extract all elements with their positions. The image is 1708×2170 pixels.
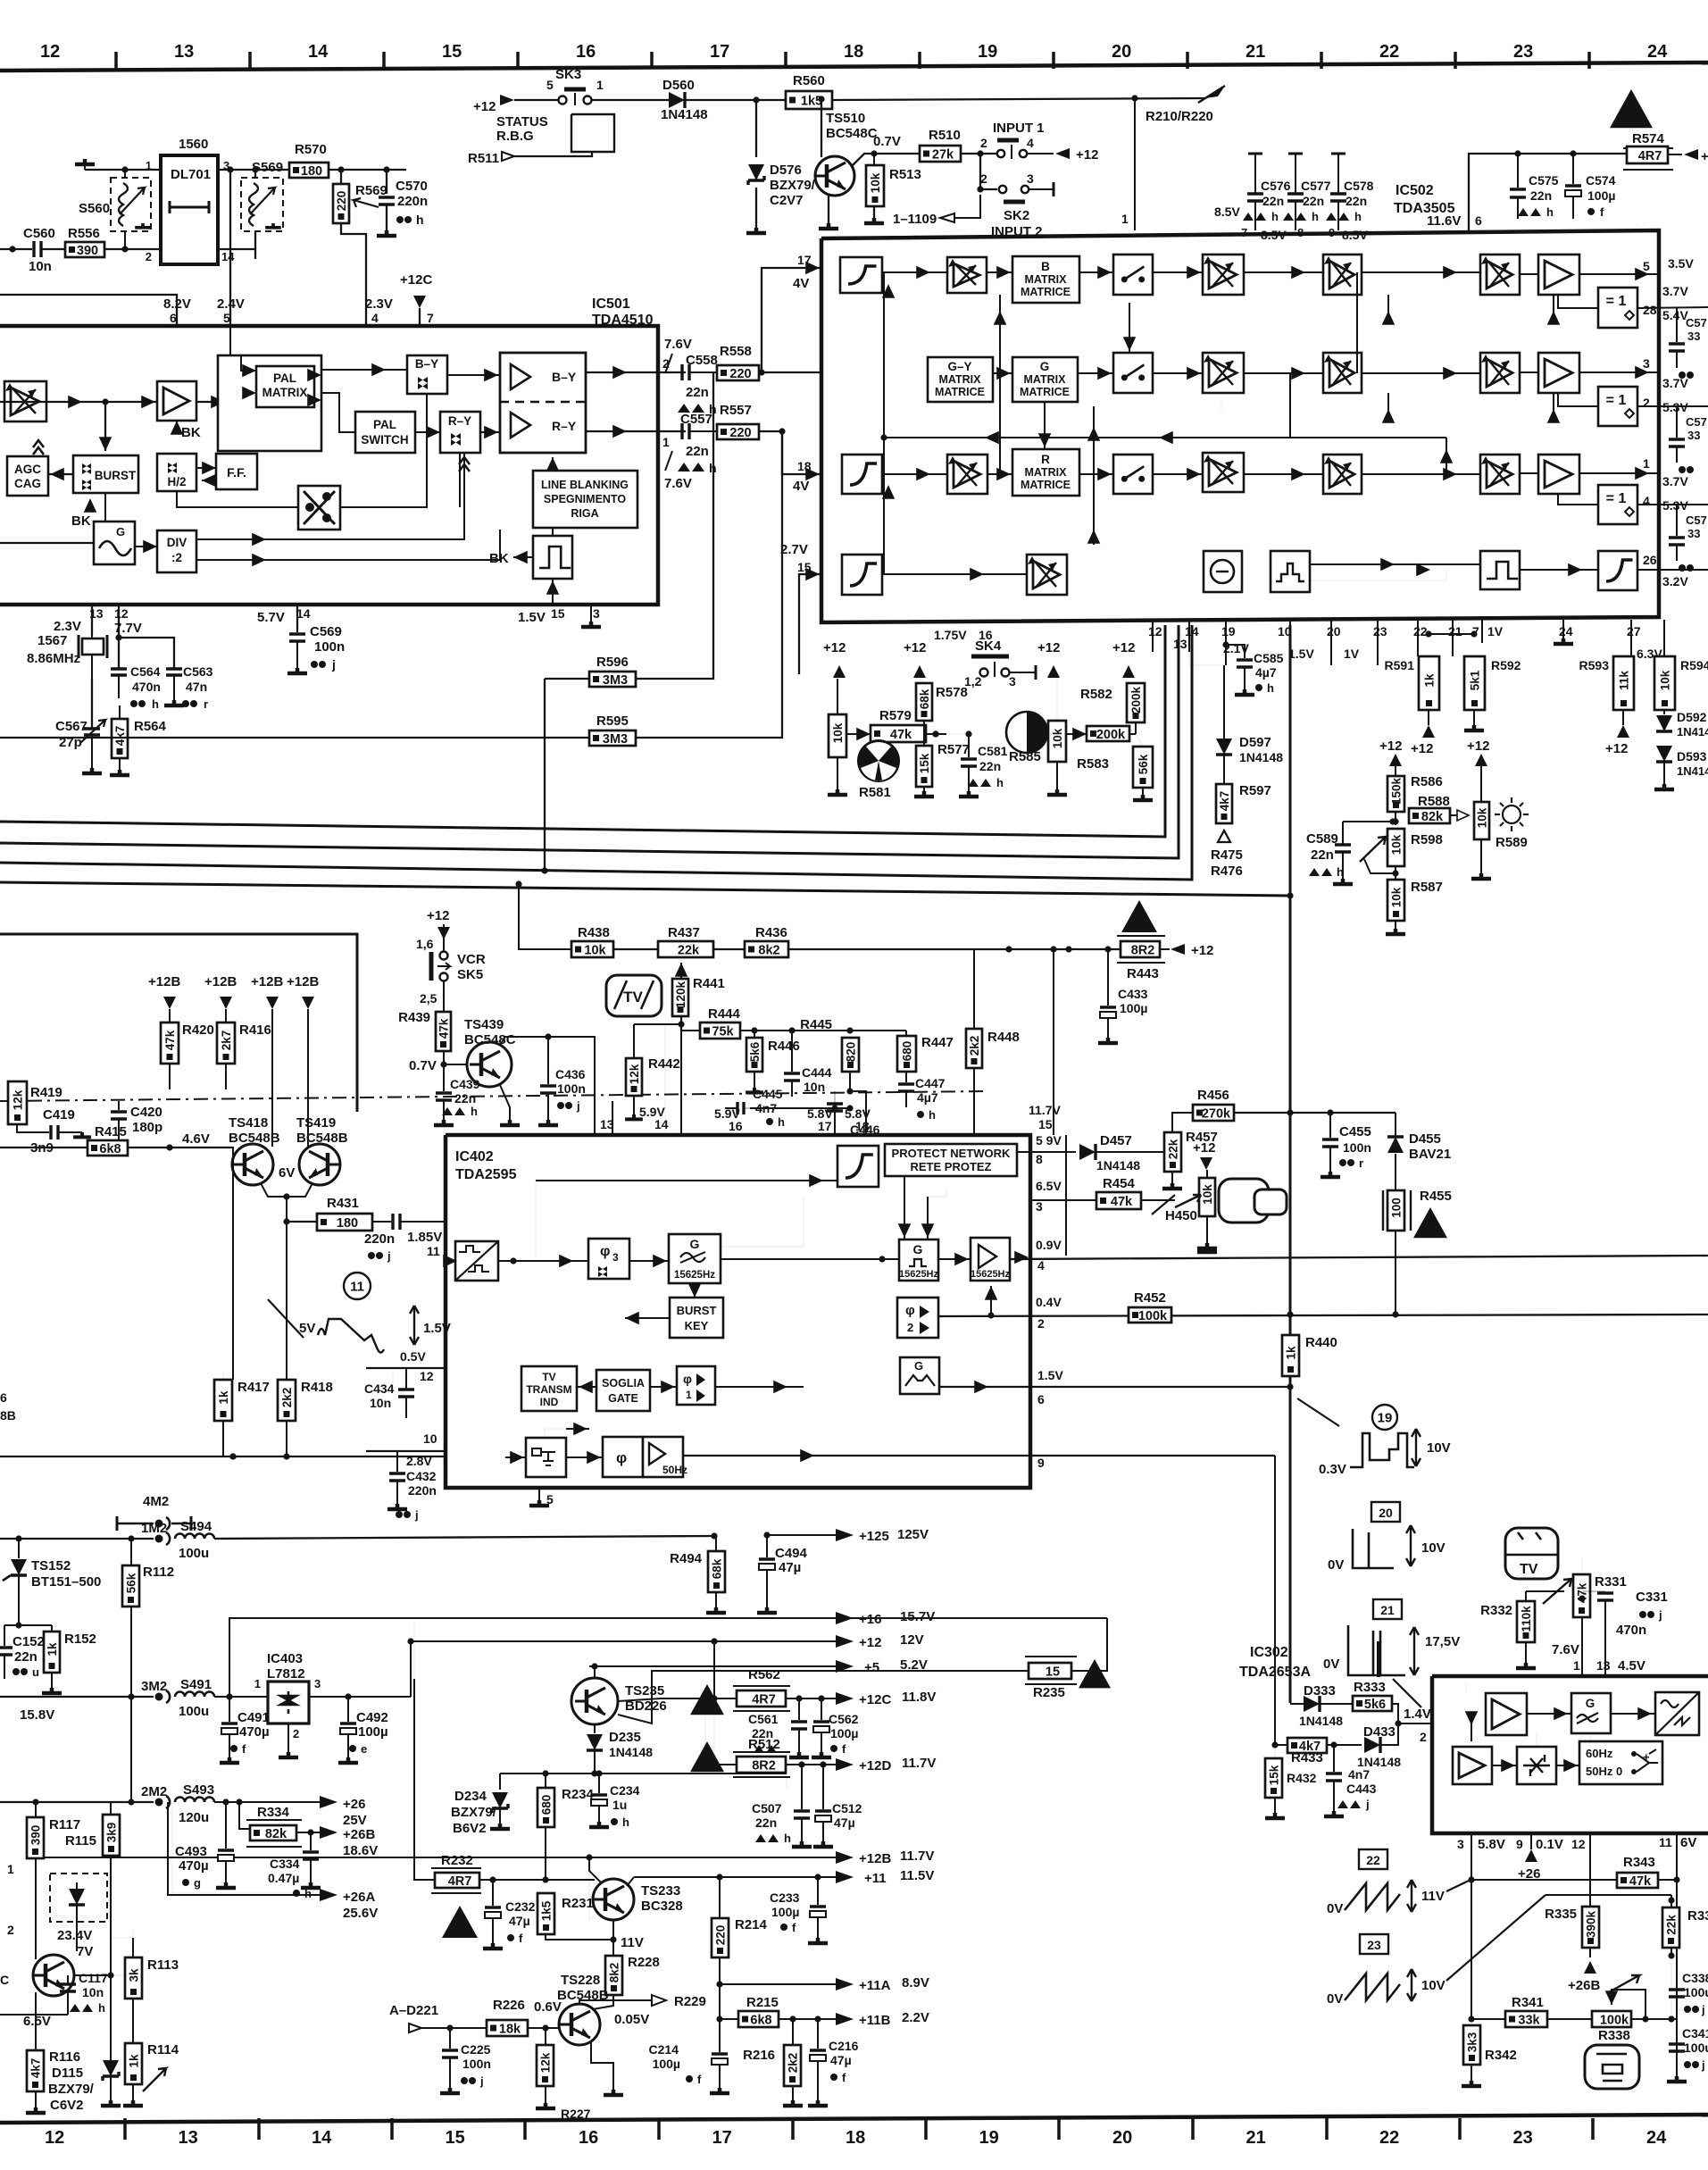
svg-text:15: 15: [551, 606, 565, 621]
svg-text:+12B: +12B: [251, 974, 283, 989]
svg-text:C562: C562: [829, 1712, 859, 1726]
svg-text:TDA2595: TDA2595: [455, 1167, 517, 1182]
capacitor 220n coupling: [393, 1214, 400, 1230]
svg-text:R445: R445: [800, 1017, 832, 1032]
svg-text:R214: R214: [735, 1917, 768, 1932]
warning triangle above R443: [1121, 900, 1157, 932]
svg-text:10V: 10V: [1421, 1978, 1446, 1993]
resistor R445: [842, 1038, 859, 1072]
svg-text:R593: R593: [1579, 658, 1610, 672]
svg-text:18: 18: [844, 42, 863, 62]
svg-text:R.B.G: R.B.G: [496, 129, 534, 144]
svg-text:5V: 5V: [299, 1321, 315, 1336]
main output line pin4: [1010, 1256, 1708, 1259]
svg-text:22k: 22k: [678, 944, 700, 958]
svg-text:R334: R334: [257, 1805, 290, 1820]
svg-text:8: 8: [1297, 226, 1304, 239]
svg-text:C57: C57: [1686, 415, 1707, 429]
delay line DL701 (1560): [161, 155, 218, 264]
ground under C561: [789, 1752, 809, 1757]
fan symbol R581: [857, 739, 900, 782]
svg-text:110k: 110k: [1520, 1606, 1533, 1632]
svg-text:17: 17: [710, 42, 729, 62]
deflection yoke symbol: [1219, 1179, 1269, 1223]
svg-text:C585: C585: [1254, 651, 1284, 665]
svg-text:H450: H450: [1165, 1208, 1197, 1223]
60Hz 50Hz ident block: [1579, 1741, 1662, 1784]
ground under R442: [625, 1114, 643, 1119]
resistor R595: [589, 730, 636, 747]
ground under R332: [1516, 1663, 1536, 1668]
G ramp block IC302: [1571, 1693, 1611, 1733]
svg-text:680: 680: [901, 1041, 914, 1062]
svg-text:C564: C564: [130, 664, 161, 679]
svg-text:47k: 47k: [163, 1030, 177, 1050]
svg-text:20: 20: [1327, 624, 1341, 638]
wire amp to eq1 row1: [1558, 295, 1598, 308]
ruler tick top: [248, 52, 252, 69]
svg-text:KEY: KEY: [685, 1319, 709, 1332]
wire B-Y demod to output amp: [447, 374, 500, 376]
phi3 block: [588, 1239, 629, 1279]
page top ruler line: [0, 63, 1708, 71]
resistor R570: [289, 163, 329, 179]
LINE BLANKING block: [533, 471, 637, 528]
svg-text:1k: 1k: [1423, 673, 1437, 688]
resistor R578: [916, 683, 932, 721]
transistor TS233 BC328: [593, 1879, 634, 1920]
svg-text:100n: 100n: [462, 2057, 491, 2071]
svg-text:33k: 33k: [1518, 2014, 1540, 2028]
G-Y MATRIX block: [928, 357, 993, 402]
svg-text:R557: R557: [720, 403, 752, 418]
svg-text:3: 3: [1643, 356, 1650, 371]
svg-text:h: h: [1354, 210, 1362, 223]
svg-text:1567: 1567: [37, 633, 67, 648]
resistor R588: [1392, 818, 1398, 824]
svg-text:R342: R342: [1485, 2048, 1517, 2063]
wires row1: [882, 271, 947, 273]
svg-text:R597: R597: [1239, 783, 1271, 798]
svg-text:1N4148: 1N4148: [661, 107, 708, 122]
svg-text:3: 3: [1036, 1199, 1043, 1214]
svg-text:h: h: [622, 1815, 629, 1829]
svg-text:TRANSM: TRANSM: [526, 1383, 571, 1396]
svg-text:D234: D234: [454, 1789, 487, 1804]
resistor R513: [866, 165, 884, 206]
svg-text:47µ: 47µ: [830, 2053, 852, 2067]
wire D235 node to 680/ C234: [786, 1774, 787, 1788]
svg-text:10k: 10k: [1659, 670, 1672, 690]
svg-text:g: g: [194, 1876, 201, 1890]
svg-text:15: 15: [1038, 1117, 1053, 1131]
+12 arrow over SK5: [437, 927, 450, 939]
ground under R457: [1162, 1183, 1182, 1189]
resistor R331: [1573, 1574, 1590, 1617]
capacitor C494: [766, 1535, 768, 1557]
potentiometer R598: [1387, 829, 1404, 866]
svg-text:120u: 120u: [179, 1810, 209, 1825]
amp block IC302 row2: [1453, 1747, 1492, 1784]
wire S494 to +125 arrow: [214, 1536, 714, 1539]
svg-text:IC402: IC402: [455, 1149, 494, 1164]
coil S493: [175, 1798, 214, 1803]
capacitor C562: [821, 1698, 822, 1720]
svg-text:9: 9: [1516, 1837, 1523, 1851]
wire R456 to C455/D455: [1234, 1112, 1396, 1114]
svg-text:C334: C334: [270, 1857, 300, 1871]
collector TS228 to R229 pointer: [579, 2000, 652, 2004]
svg-text:R420: R420: [182, 1022, 214, 1038]
svg-text:h: h: [784, 1832, 791, 1845]
svg-text:23.4V: 23.4V: [57, 1928, 92, 1943]
equal-1 block row3: [1598, 485, 1637, 524]
svg-text:R581: R581: [859, 785, 891, 800]
svg-text:100: 100: [1390, 1198, 1404, 1218]
svg-text:4: 4: [371, 311, 379, 325]
svg-text:8B: 8B: [0, 1408, 16, 1423]
svg-text:6: 6: [0, 1390, 7, 1405]
svg-text:C436: C436: [555, 1067, 586, 1081]
svg-text:R440: R440: [1305, 1335, 1337, 1350]
svg-text:R564: R564: [134, 719, 167, 734]
svg-text:26: 26: [1643, 553, 1657, 567]
svg-text:BZX79/: BZX79/: [48, 2082, 95, 2097]
wire amp to eq1 row3: [1558, 494, 1598, 505]
wire into IC502 pin18: [782, 431, 821, 474]
svg-text:+12: +12: [1076, 147, 1098, 163]
wire PAL MATRIX to PAL SWITCH: [321, 393, 355, 432]
diode D433: [1364, 1737, 1380, 1753]
wire R112 down: [130, 1697, 132, 1802]
svg-text:12: 12: [1571, 1837, 1586, 1851]
svg-text:R438: R438: [578, 925, 610, 940]
15.8V feed wire with S491: [0, 1696, 154, 1698]
svg-text:R595: R595: [596, 714, 629, 729]
svg-text:100k: 100k: [1138, 1309, 1168, 1323]
svg-text:BZX79/: BZX79/: [451, 1805, 497, 1820]
svg-text:R226: R226: [493, 1998, 525, 2013]
svg-text:4: 4: [1027, 136, 1034, 150]
zener D576: [755, 100, 757, 157]
ground under R152: [42, 1688, 62, 1693]
resistor R334 82k: [239, 1802, 250, 1829]
ruler tick top: [114, 52, 118, 69]
svg-text:11.7V: 11.7V: [1029, 1103, 1061, 1117]
junction dots on bus lines: [229, 1453, 236, 1459]
ground under C570: [377, 230, 396, 236]
zener D234: [499, 1774, 501, 1790]
svg-text:23: 23: [1513, 42, 1533, 62]
svg-text:G: G: [116, 525, 125, 538]
svg-text:0.1V: 0.1V: [1536, 1837, 1563, 1852]
svg-text:j: j: [414, 1508, 419, 1522]
svg-text:5.3V: 5.3V: [1662, 400, 1688, 414]
emitter TS228: [591, 2041, 613, 2090]
svg-text:TS152: TS152: [31, 1558, 71, 1573]
svg-text:G: G: [690, 1237, 700, 1251]
svg-text:R579: R579: [879, 708, 912, 723]
svg-text:C420: C420: [130, 1105, 162, 1120]
svg-text:TS228: TS228: [561, 1973, 600, 1988]
svg-text:5: 5: [1643, 259, 1650, 273]
resistor R417: [232, 1148, 234, 1380]
ground under C562: [812, 1752, 831, 1757]
warning triangle near R235: [1079, 1659, 1111, 1688]
circled 19 callout: [1372, 1405, 1397, 1430]
svg-text:12: 12: [45, 2128, 64, 2148]
wire collector TS510: [821, 99, 822, 157]
svg-text:+12: +12: [1112, 640, 1135, 655]
switch SK5 VCR: [440, 952, 448, 960]
wire D457 to R457/R456: [1172, 1113, 1193, 1152]
svg-text:CAG: CAG: [14, 477, 41, 490]
capacitor C214: [719, 2050, 721, 2052]
transistor TS228 BC548B: [559, 2004, 600, 2045]
resistor R439: [436, 1012, 451, 1051]
svg-text:R598: R598: [1411, 832, 1443, 847]
svg-text:D597: D597: [1239, 735, 1271, 750]
svg-text:18: 18: [855, 1119, 870, 1133]
long vertical to D333: [1289, 896, 1292, 1703]
current source block: [1204, 551, 1242, 592]
svg-text:+12: +12: [823, 640, 846, 655]
svg-text:R216: R216: [743, 2048, 775, 2063]
svg-text:C443: C443: [1346, 1782, 1377, 1796]
svg-text:5.3V: 5.3V: [1662, 498, 1688, 513]
svg-text:R418: R418: [301, 1380, 333, 1395]
svg-text:16: 16: [729, 1119, 743, 1133]
+11A rail: [720, 1983, 836, 1985]
svg-text:11.7V: 11.7V: [902, 1756, 936, 1771]
svg-text:+125: +125: [859, 1529, 889, 1544]
transistor TS439 BC548C: [467, 1042, 512, 1087]
capacitor C507: [801, 1765, 803, 1809]
wire R560 to right (main +12 top rail): [832, 98, 1205, 100]
slope block row4 (pin15): [842, 555, 882, 595]
output amplifier box B-Y/R-Y: [500, 353, 586, 453]
svg-text:3k9: 3k9: [105, 1823, 119, 1843]
capacitor C233: [814, 1874, 821, 1880]
line pin2 0.4V: [938, 1315, 1708, 1316]
resistor R444: [681, 1030, 700, 1031]
resistor R336 22k: [1662, 1907, 1679, 1948]
block border left mid: [0, 934, 357, 1112]
ground under R114: [123, 2100, 143, 2106]
svg-text:R454: R454: [1103, 1176, 1136, 1191]
svg-text:R114: R114: [147, 2042, 179, 2057]
svg-text:TS439: TS439: [464, 1017, 504, 1032]
capacitor C493: [225, 1802, 227, 1849]
svg-text:14: 14: [654, 1117, 669, 1131]
capacitor C443: [1333, 1745, 1335, 1772]
svg-text:15.8V: 15.8V: [20, 1707, 54, 1723]
resistor R418: [286, 1222, 287, 1380]
svg-text:+5: +5: [864, 1660, 879, 1675]
svg-text:F.F.: F.F.: [227, 465, 246, 480]
svg-text:R578: R578: [936, 685, 968, 700]
diode D597: [1189, 652, 1224, 665]
wire R558 to IC502: [759, 371, 821, 373]
resistor R593: [1613, 656, 1634, 710]
svg-text:2.7V: 2.7V: [780, 542, 808, 557]
svg-text:C57: C57: [1686, 316, 1707, 330]
wire vertical from R596 to bus: [544, 679, 546, 871]
svg-text:1.4V: 1.4V: [1404, 1707, 1431, 1722]
resistor R214 220: [719, 1877, 721, 1918]
svg-text:e: e: [361, 1742, 367, 1756]
wire pin5 into PAL MATRIX box: [229, 326, 231, 355]
svg-text:12k: 12k: [628, 1064, 641, 1084]
stub pin17: [834, 1108, 836, 1135]
capacitor C433: [1107, 949, 1109, 1006]
svg-text:1: 1: [686, 1389, 692, 1401]
svg-text:100n: 100n: [557, 1081, 586, 1096]
resistor R228 8k2: [612, 1940, 614, 1956]
svg-text:R33: R33: [1687, 1908, 1708, 1924]
resistor R234 680: [537, 1788, 554, 1827]
svg-text:j: j: [1658, 1608, 1662, 1622]
svg-text:R455: R455: [1420, 1189, 1452, 1204]
capacitor C434: [392, 1368, 394, 1390]
svg-text:6V: 6V: [279, 1165, 295, 1181]
svg-text:R574: R574: [1632, 131, 1665, 146]
sandcastle pulse block: [533, 536, 572, 579]
resistor R594: [1654, 656, 1675, 710]
resistor R584: [1087, 726, 1129, 742]
svg-text:56k: 56k: [1137, 754, 1150, 774]
svg-text:17: 17: [797, 253, 812, 267]
svg-text:1: 1: [662, 435, 670, 449]
svg-text:D457: D457: [1100, 1133, 1132, 1148]
resistor R215 6k8: [720, 2018, 738, 2020]
svg-text:C581: C581: [978, 744, 1008, 758]
svg-text:r: r: [1359, 1156, 1363, 1170]
svg-text:f: f: [242, 1742, 246, 1756]
svg-text:5.8V: 5.8V: [1478, 1837, 1505, 1852]
svg-text:47k: 47k: [890, 728, 912, 742]
svg-text:470n: 470n: [132, 680, 161, 694]
svg-text:G: G: [1040, 360, 1050, 373]
resistor R231 1k5: [537, 1893, 554, 1934]
ruler tick bottom: [924, 2118, 928, 2140]
svg-text:TS418: TS418: [229, 1115, 268, 1131]
svg-text:5: 5: [223, 311, 230, 325]
svg-text:390: 390: [77, 244, 98, 258]
svg-text:R338: R338: [1598, 2028, 1630, 2043]
capacitor C573 on output row3: [1676, 505, 1678, 536]
resistor R512 8R2: [733, 1752, 790, 1777]
svg-text:D560: D560: [662, 78, 695, 93]
svg-text:R591: R591: [1385, 658, 1415, 672]
svg-text:j: j: [479, 2074, 484, 2088]
svg-text:f: f: [697, 2073, 702, 2086]
svg-text:7: 7: [427, 311, 434, 325]
svg-text:3: 3: [593, 606, 600, 621]
svg-text:6: 6: [1475, 213, 1482, 228]
callout box under SK3: [571, 114, 614, 152]
svg-text:R432: R432: [1287, 1771, 1317, 1785]
ground under D576: [746, 228, 766, 233]
wire BURST to AGC arrow: [48, 473, 73, 475]
svg-text:4: 4: [1037, 1258, 1045, 1273]
svg-text:7: 7: [1241, 226, 1247, 239]
svg-text:MATRICE: MATRICE: [935, 386, 985, 398]
capacitor C574 electrolytic: [1572, 154, 1574, 184]
svg-text:R494: R494: [670, 1551, 703, 1566]
svg-text:VCR: VCR: [457, 952, 486, 967]
svg-text:15625Hz: 15625Hz: [899, 1269, 939, 1280]
capacitor C234: [598, 1774, 600, 1793]
svg-text:11: 11: [350, 1279, 364, 1294]
svg-text:TS233: TS233: [641, 1883, 680, 1899]
burst key block: [670, 1298, 723, 1338]
svg-text:0.9V: 0.9V: [1036, 1238, 1062, 1252]
svg-text:220n: 220n: [364, 1231, 395, 1247]
wire R437-R436: [713, 948, 745, 950]
PAL MATRIX inner box: [256, 366, 314, 407]
svg-text:+12: +12: [427, 908, 449, 923]
svg-text:100µ: 100µ: [653, 2057, 680, 2071]
resistor R494: [708, 1551, 725, 1592]
svg-text:20: 20: [1112, 2128, 1132, 2148]
bus line 2: [0, 625, 1179, 858]
wires to protect: [904, 1176, 905, 1239]
equal-1 block row2: [1598, 387, 1637, 426]
wire eq1 row1 out: [1637, 307, 1708, 308]
svg-text:4k7: 4k7: [113, 726, 127, 747]
svg-text:R510: R510: [929, 128, 961, 143]
G MATRIX block: [1012, 357, 1078, 402]
crystal 1567 8.86MHz: [91, 605, 93, 635]
resistor R152: [44, 1632, 60, 1673]
svg-text:R113: R113: [147, 1957, 179, 1973]
svg-text:C493: C493: [175, 1844, 207, 1859]
wire to pin14: [665, 1024, 681, 1135]
svg-text:+12: +12: [1605, 741, 1628, 756]
svg-text:8.5V: 8.5V: [1214, 204, 1240, 219]
svg-text:7.6V: 7.6V: [664, 337, 692, 352]
svg-text:10V: 10V: [1427, 1440, 1451, 1456]
svg-text:S491: S491: [180, 1677, 212, 1692]
svg-text:C419: C419: [43, 1107, 75, 1123]
ground near line: [1197, 1247, 1217, 1252]
sine/sawtooth converter block: [1655, 1692, 1699, 1735]
wire R441 to node: [680, 1016, 682, 1031]
amp block row3 col2: [947, 455, 987, 494]
ruler tick bottom: [1591, 2118, 1595, 2140]
svg-text:3: 3: [314, 1677, 321, 1690]
svg-text:IC403: IC403: [267, 1651, 303, 1666]
svg-text:47µ: 47µ: [779, 1560, 801, 1575]
svg-text:10n: 10n: [804, 1080, 825, 1094]
resistor R457: [1164, 1132, 1181, 1172]
svg-text:8k2: 8k2: [608, 1963, 621, 1983]
pin8 wire 5.9V: [1017, 1151, 1076, 1153]
ground under TS228: [604, 2090, 623, 2095]
svg-text:1V: 1V: [1487, 624, 1504, 638]
svg-text:C574: C574: [1586, 173, 1616, 188]
svg-text:33: 33: [1687, 429, 1700, 442]
wire DL701 pin3 down to IC501 pin5: [229, 170, 231, 326]
wires row2: [993, 372, 1012, 374]
svg-text:R511: R511: [468, 151, 499, 166]
svg-text:47k: 47k: [1629, 1874, 1652, 1889]
+12 over R586: [1389, 754, 1402, 766]
wire SK3 to D560: [592, 99, 669, 101]
svg-text:1: 1: [7, 1862, 14, 1876]
capacitor C585: [1222, 641, 1229, 647]
